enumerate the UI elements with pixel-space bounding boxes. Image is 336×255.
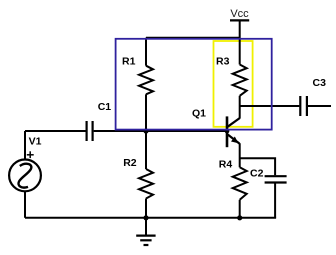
wire base right — [94, 130, 227, 132]
svg-text:R1: R1 — [122, 55, 136, 67]
resistor R2 — [139, 131, 153, 218]
svg-text:R4: R4 — [219, 158, 233, 170]
ground — [136, 218, 155, 245]
resistor R3 — [233, 65, 247, 119]
svg-text:V1: V1 — [29, 135, 42, 147]
wire C2 bottom — [274, 184, 276, 218]
svg-text:C3: C3 — [313, 77, 327, 89]
capacitor C3 — [300, 96, 307, 116]
source V1 — [9, 131, 41, 218]
wire top rail R1 to R3 — [146, 37, 240, 39]
svg-text:R2: R2 — [123, 157, 137, 169]
transistor Q1 — [227, 116, 240, 147]
resistor R4 — [233, 167, 247, 218]
wire collector to C3 — [240, 105, 300, 107]
node junction ground — [143, 215, 148, 220]
capacitor C1 — [87, 121, 93, 141]
wire bottom rail — [25, 217, 276, 219]
node junction R1-R2-base — [143, 128, 148, 133]
svg-text:R3: R3 — [216, 55, 230, 67]
wire base — [25, 130, 86, 132]
svg-text:C1: C1 — [98, 101, 112, 113]
svg-text:Q1: Q1 — [192, 108, 206, 120]
capacitor C2 — [265, 176, 287, 182]
wire emitter to C2 — [240, 158, 275, 175]
node junction base Q1 — [225, 129, 230, 134]
yellow highlight box — [214, 41, 253, 127]
svg-text:Vcc: Vcc — [230, 8, 249, 20]
wire C3 output — [308, 105, 331, 107]
node junction R4-C2 — [237, 215, 242, 220]
svg-text:C2: C2 — [250, 167, 264, 179]
wire emitter — [239, 143, 241, 167]
power Vcc bar — [230, 19, 249, 21]
blue highlight box — [116, 39, 272, 130]
wire Vcc stem — [239, 20, 241, 64]
resistor R1 — [139, 38, 153, 131]
